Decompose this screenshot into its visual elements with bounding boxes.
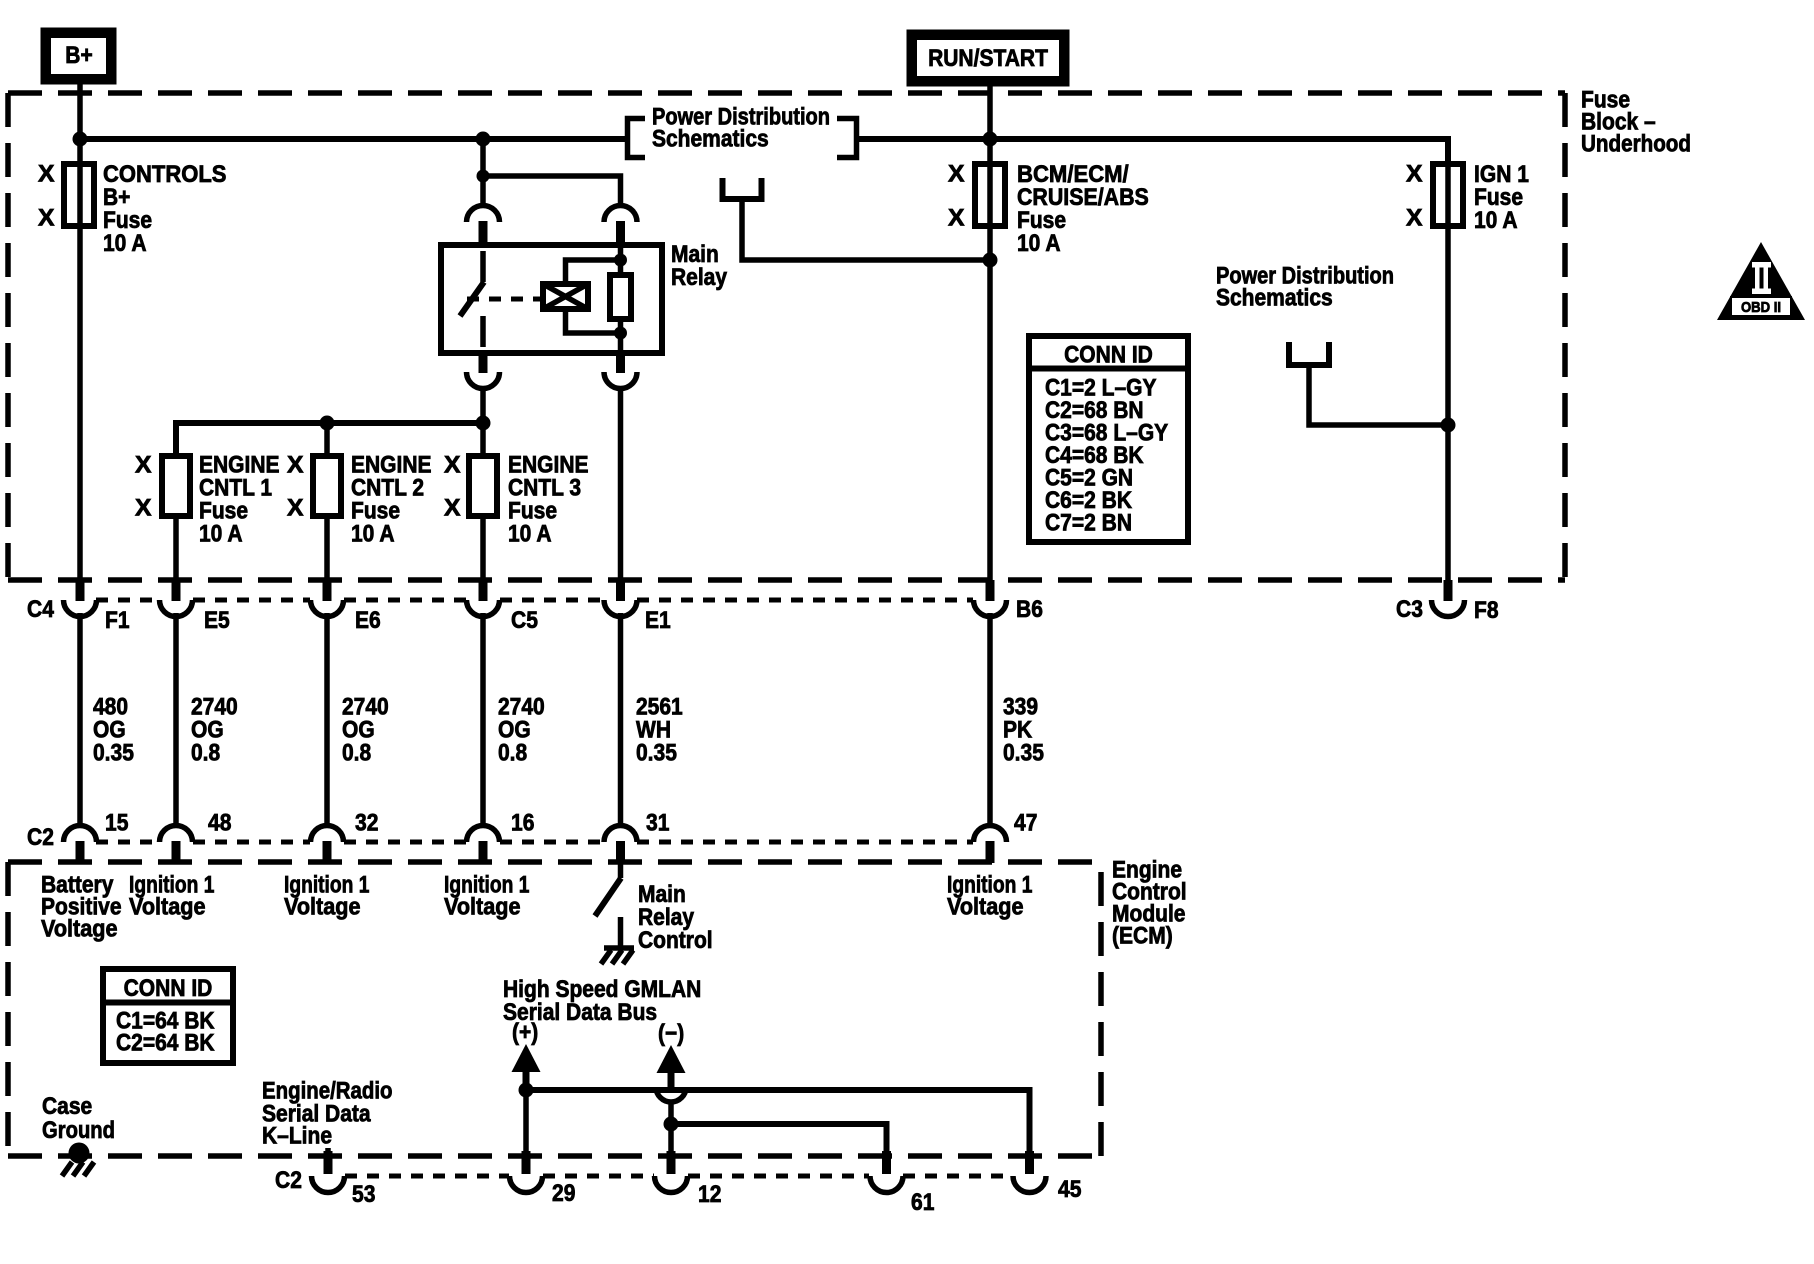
label: Main Relay xyxy=(671,241,728,291)
svg-text:Ground: Ground xyxy=(42,1117,115,1144)
off-page bracket ] xyxy=(837,119,857,158)
GMLAN - arrow xyxy=(657,1045,686,1073)
node: Engine/Radio Serial Data K-Line xyxy=(262,1078,393,1150)
svg-text:10 A: 10 A xyxy=(508,521,552,548)
junction B+ bus at CONTROLS fuse xyxy=(73,132,88,147)
svg-text:0.8: 0.8 xyxy=(342,740,371,767)
CONN ID table (ECM) xyxy=(103,969,233,1063)
svg-text:31: 31 xyxy=(646,810,669,837)
junction engine bus at CNTL2 xyxy=(320,416,335,431)
wire: - arrow stem xyxy=(668,1073,675,1087)
svg-text:0.35: 0.35 xyxy=(636,740,677,767)
fuse BCM/ECM/CRUISE/ABS 10A xyxy=(948,161,1149,258)
wire: main B+ bus horizontal xyxy=(80,136,625,142)
wire: relay output to engine fuses bus xyxy=(480,388,486,456)
svg-text:C3: C3 xyxy=(1396,596,1423,623)
connector pin out of relay (right) xyxy=(604,352,637,389)
svg-text:53: 53 xyxy=(352,1181,375,1208)
wire: bus to ENGINE CNTL 2 fuse xyxy=(324,423,330,456)
relay resistor xyxy=(610,275,631,319)
junction BCM wire / off-page stub xyxy=(983,253,998,268)
wire 480 OG 0.35 xyxy=(77,613,83,827)
svg-text:X: X xyxy=(135,452,152,479)
power feed box B+ xyxy=(41,28,116,84)
junction bus at RUN/START wire xyxy=(983,132,998,147)
svg-text:0.35: 0.35 xyxy=(93,740,134,767)
svg-text:(ECM): (ECM) xyxy=(1112,923,1173,950)
ground (main relay control) xyxy=(601,948,634,964)
connector row C2 (bottom) dotted harness line xyxy=(345,1174,1012,1179)
wire: branch to relay coil side xyxy=(483,176,621,207)
wire: engine fuses bus xyxy=(176,423,483,456)
svg-text:Voltage: Voltage xyxy=(444,894,521,921)
svg-text:E6: E6 xyxy=(355,607,381,634)
wire: CNTL2 fuse to connector E6 xyxy=(324,516,330,580)
connector pin out of relay (left) xyxy=(467,352,500,389)
svg-text:47: 47 xyxy=(1014,810,1037,837)
relay coil winding path xyxy=(618,248,624,352)
label: Engine Control Module (ECM) xyxy=(1112,857,1187,950)
power feed box RUN/START xyxy=(907,30,1069,86)
svg-text:X: X xyxy=(1406,161,1423,188)
svg-text:10 A: 10 A xyxy=(1017,230,1061,257)
svg-text:Voltage: Voltage xyxy=(947,894,1024,921)
off-page connector stub (to RUN/START net) xyxy=(723,178,762,199)
wire: GMLAN - bus to pin 61 xyxy=(671,1124,887,1153)
svg-text:CONN ID: CONN ID xyxy=(1064,342,1153,369)
wire 2561 WH 0.35 xyxy=(618,613,624,827)
svg-text:C4: C4 xyxy=(27,596,54,623)
wire hop over + bus xyxy=(656,1087,686,1102)
svg-text:C5: C5 xyxy=(511,607,538,634)
connector C4-F1 pin xyxy=(64,580,97,617)
connector 31 pin xyxy=(604,826,637,864)
junction IGN1 wire / off-page stub xyxy=(1441,418,1456,433)
connector 48 pin xyxy=(160,826,193,864)
connector C5 pin xyxy=(467,580,500,617)
svg-text:RUN/START: RUN/START xyxy=(928,45,1048,72)
svg-text:10 A: 10 A xyxy=(103,230,147,257)
junction GMLAN + xyxy=(519,1083,534,1098)
svg-text:12: 12 xyxy=(698,1181,721,1208)
junction coil top xyxy=(614,254,627,267)
wire: CONTROLS fuse to connector F1 xyxy=(77,164,83,580)
svg-text:X: X xyxy=(444,452,461,479)
connector 47 pin xyxy=(974,826,1007,864)
GMLAN + arrow xyxy=(512,1044,541,1072)
fuse ENGINE CNTL 1 10A xyxy=(135,452,280,548)
svg-text:C2: C2 xyxy=(275,1167,302,1194)
fuse ENGINE CNTL 3 10A xyxy=(444,452,589,548)
svg-text:X: X xyxy=(287,452,304,479)
svg-text:X: X xyxy=(38,205,55,232)
wire: GMLAN + bus to pin 45 xyxy=(526,1090,1030,1153)
off-page connector stub (to IGN1 net) xyxy=(1289,342,1329,365)
wire: CNTL1 fuse to connector E5 xyxy=(173,516,179,580)
svg-text:0.8: 0.8 xyxy=(191,740,220,767)
svg-text:X: X xyxy=(948,161,965,188)
connector 12 pin xyxy=(655,1151,688,1193)
svg-text:10 A: 10 A xyxy=(199,521,243,548)
wire: K-line stub xyxy=(325,1148,331,1153)
svg-text:61: 61 xyxy=(911,1189,934,1216)
svg-text:C2: C2 xyxy=(27,824,54,851)
wire: RUN/START feed down xyxy=(987,86,993,164)
svg-text:X: X xyxy=(287,495,304,522)
wire: stub to IGN1 wire xyxy=(1309,365,1448,425)
svg-text:(+): (+) xyxy=(512,1019,538,1046)
node: Ignition 1 Voltage (47) xyxy=(947,872,1032,921)
node: High Speed GMLAN Serial Data Bus xyxy=(503,976,701,1026)
svg-text:X: X xyxy=(444,495,461,522)
connector B6 pin xyxy=(974,580,1007,617)
relay coil symbol xyxy=(543,284,588,309)
svg-text:C7=2 BN: C7=2 BN xyxy=(1045,510,1132,537)
CONN ID table (fuse block) xyxy=(1029,336,1188,542)
connector 45 pin xyxy=(1013,1151,1046,1193)
junction B+ bus at relay feed xyxy=(476,132,491,147)
svg-text:K–Line: K–Line xyxy=(262,1123,332,1150)
off-page bracket [ xyxy=(628,119,646,158)
node: Ignition 1 Voltage (48) xyxy=(284,872,369,921)
connector E5 pin xyxy=(160,580,193,617)
wire 2740 OG 0.8 (b) xyxy=(324,613,330,827)
svg-text:48: 48 xyxy=(208,810,231,837)
ground: case ground dot and hatch xyxy=(62,1143,94,1177)
wire: - down to junction xyxy=(668,1101,674,1153)
svg-text:Underhood: Underhood xyxy=(1581,131,1691,158)
connector C3-F8 pin xyxy=(1432,580,1465,617)
svg-text:OBD II: OBD II xyxy=(1741,299,1781,316)
connector 16 pin xyxy=(467,826,500,864)
svg-text:Voltage: Voltage xyxy=(284,894,361,921)
wire 2740 OG 0.8 (a) xyxy=(173,613,179,827)
svg-text:45: 45 xyxy=(1058,1176,1081,1203)
connector 29 pin xyxy=(510,1151,543,1193)
relay actuation dashed link xyxy=(467,297,543,302)
svg-text:Relay: Relay xyxy=(671,264,728,291)
connector E6 pin xyxy=(311,580,344,617)
connector 32 pin xyxy=(311,826,344,864)
wire: B+ feed from box to fuse block xyxy=(77,84,83,164)
label: Power Distribution Schematics (right) xyxy=(1216,263,1394,312)
svg-text:Control: Control xyxy=(638,927,713,954)
node: Ignition 1 Voltage (15) xyxy=(129,872,214,921)
junction GMLAN - xyxy=(664,1117,679,1132)
svg-text:C2=64 BK: C2=64 BK xyxy=(116,1030,215,1057)
wire: CNTL3 fuse to connector C5 xyxy=(480,516,486,580)
connector row C4 dotted harness line xyxy=(96,598,973,603)
junction coil bottom xyxy=(614,327,627,340)
svg-text:F1: F1 xyxy=(105,607,130,634)
svg-text:X: X xyxy=(1406,205,1423,232)
engine control module dashed box xyxy=(8,862,1101,1156)
relay switch contact xyxy=(480,251,486,282)
wire: relay feed branch xyxy=(480,139,486,207)
connector C2-53 pin xyxy=(312,1151,345,1193)
svg-text:B6: B6 xyxy=(1016,596,1043,623)
wire: stub to BCM wire xyxy=(742,200,990,260)
OBD II marker triangle xyxy=(1717,242,1805,320)
svg-text:10 A: 10 A xyxy=(351,521,395,548)
node: Ignition 1 Voltage (32) xyxy=(444,872,529,921)
node: Main Relay Control xyxy=(638,881,713,954)
svg-text:Schematics: Schematics xyxy=(652,126,769,153)
svg-text:29: 29 xyxy=(552,1180,575,1207)
fuse IGN 1 10A xyxy=(1406,161,1529,235)
svg-text:Schematics: Schematics xyxy=(1216,285,1333,312)
svg-text:F8: F8 xyxy=(1474,597,1499,624)
svg-text:B+: B+ xyxy=(65,42,92,69)
wire 339 PK 0.35 xyxy=(987,613,993,827)
label: Power Distribution Schematics (left) xyxy=(652,104,830,153)
svg-text:X: X xyxy=(135,495,152,522)
connector pin into relay (left) xyxy=(467,206,500,248)
svg-text:(−): (−) xyxy=(658,1020,684,1047)
svg-text:Case: Case xyxy=(42,1093,92,1120)
connector row C2 dotted harness line xyxy=(96,840,973,845)
svg-text:0.35: 0.35 xyxy=(1003,740,1044,767)
wire: + down to pin 29 xyxy=(523,1090,529,1153)
node: Case Ground xyxy=(42,1093,115,1144)
svg-text:CONN ID: CONN ID xyxy=(124,975,213,1002)
wire: IGN1 fuse to connector C3 xyxy=(1445,164,1451,580)
svg-text:Voltage: Voltage xyxy=(41,916,118,943)
svg-text:E1: E1 xyxy=(645,607,671,634)
svg-text:10 A: 10 A xyxy=(1474,207,1518,234)
svg-text:X: X xyxy=(38,161,55,188)
wire: relay output to connector E1 xyxy=(618,388,624,580)
wire: BCM fuse to connector B6 xyxy=(987,164,993,580)
junction engine bus at CNTL3 xyxy=(476,416,491,431)
label: Fuse Block - Underhood xyxy=(1581,87,1691,158)
fuse ENGINE CNTL 2 10A xyxy=(287,452,432,548)
fuse block - underhood dashed box xyxy=(8,93,1565,580)
svg-text:0.8: 0.8 xyxy=(498,740,527,767)
fuse F CONTROLS B+ 10A xyxy=(38,161,227,258)
junction relay feed split xyxy=(477,170,490,183)
svg-text:32: 32 xyxy=(355,810,378,837)
svg-text:16: 16 xyxy=(511,810,534,837)
connector C2-15 pin xyxy=(64,826,97,864)
svg-text:E5: E5 xyxy=(204,607,230,634)
relay K Main Relay xyxy=(441,245,662,353)
node: Battery Positive Voltage xyxy=(41,872,122,943)
wire: + arrow stem xyxy=(523,1072,530,1090)
connector pin into relay (right) xyxy=(604,206,637,248)
svg-text:Voltage: Voltage xyxy=(129,894,206,921)
connector E1 pin xyxy=(604,580,637,617)
svg-text:X: X xyxy=(948,205,965,232)
ECM internal switch (main relay control) xyxy=(595,863,621,946)
wire 2740 OG 0.8 (c) xyxy=(480,613,486,827)
wire: bus from ] bracket to IGN 1 fuse xyxy=(859,139,1448,164)
svg-text:15: 15 xyxy=(105,810,128,837)
connector 61 pin xyxy=(870,1151,903,1193)
